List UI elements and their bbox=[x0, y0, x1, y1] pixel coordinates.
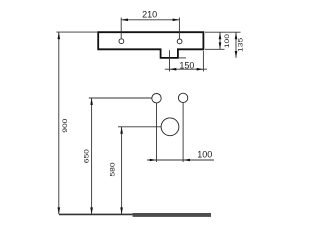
dim 900 line bbox=[58, 32, 60, 214]
ground line thin bbox=[59, 213, 134, 215]
svg-text:100: 100 bbox=[197, 150, 212, 160]
dim 135 ext stub at tab bottom bbox=[179, 57, 186, 59]
hole left on bar bbox=[119, 39, 124, 44]
circle C large bbox=[161, 118, 179, 136]
ext line below circle A bbox=[156, 103, 158, 162]
ext line below circle B bbox=[182, 103, 184, 162]
dim 650 arrow bottom bbox=[90, 207, 93, 214]
dim 100 bottom arrow left (outside) bbox=[150, 159, 157, 162]
dim 650 line bbox=[91, 98, 93, 214]
dim 100 bottom arrow right (outside) bbox=[183, 159, 190, 162]
dim 100 right arrow top bbox=[219, 32, 222, 39]
dim 135 line bbox=[235, 32, 237, 58]
dim 210 line bbox=[121, 19, 179, 21]
dim 900 arrow bottom bbox=[58, 207, 61, 214]
dim 150 arrow left bbox=[170, 68, 177, 71]
dim 580 arrow top bbox=[120, 127, 123, 134]
dim 150 ext line left (tab centre) bbox=[169, 50, 171, 71]
hole right on bar bbox=[177, 39, 182, 44]
dim 150 line bbox=[165, 68, 207, 70]
dim 135 arrow bottom bbox=[235, 51, 238, 58]
dim 150 ext line right bbox=[202, 51, 204, 72]
svg-text:650: 650 bbox=[83, 149, 90, 163]
svg-text:100: 100 bbox=[223, 34, 230, 48]
dim 135 arrow top bbox=[235, 32, 238, 39]
dim 210 ext line left bbox=[120, 18, 122, 39]
dim 150 arrow right bbox=[197, 68, 204, 71]
dim 900 arrow top bbox=[58, 32, 61, 39]
svg-text:580: 580 bbox=[109, 162, 116, 176]
circle B small right bbox=[178, 93, 187, 102]
svg-text:135: 135 bbox=[237, 38, 244, 52]
dim 580 arrow bottom bbox=[120, 207, 123, 214]
dim 210 arrow left bbox=[121, 19, 128, 22]
dim 100 right line bbox=[219, 32, 221, 49]
svg-text:210: 210 bbox=[142, 9, 157, 19]
part outline (bar with bottom tab) bbox=[98, 32, 203, 58]
circle A small left bbox=[152, 94, 161, 103]
svg-text:900: 900 bbox=[61, 119, 68, 133]
dim 580 line bbox=[121, 127, 123, 215]
dim 210 arrow right bbox=[173, 19, 180, 22]
ground wall thick bar bbox=[133, 213, 211, 217]
dim 210 ext line right bbox=[178, 18, 180, 39]
dim 650 arrow top bbox=[90, 98, 93, 105]
dim 580 ext line to circle C bbox=[118, 126, 161, 128]
dim 900 ext line top bbox=[56, 31, 97, 33]
dim 650 ext line to circle A bbox=[89, 97, 152, 99]
dim 100 bottom line bbox=[147, 159, 214, 161]
dim 100 right arrow bottom bbox=[219, 42, 222, 49]
dim 100 right ext bottom bbox=[205, 48, 225, 50]
dim 100 right ext top bbox=[205, 31, 241, 33]
svg-text:150: 150 bbox=[179, 60, 194, 70]
